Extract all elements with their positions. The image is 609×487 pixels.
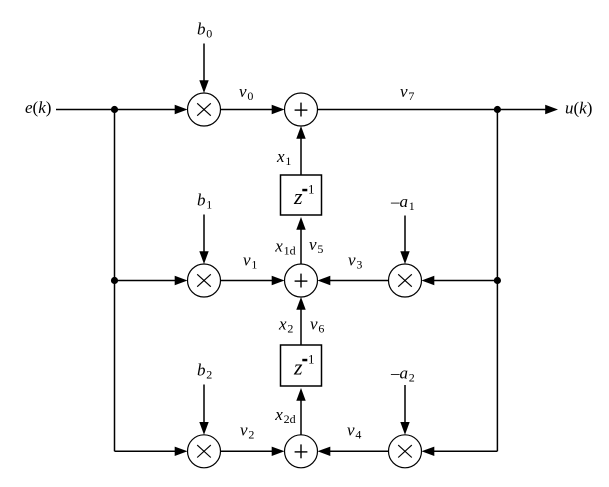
svg-text:1: 1 (308, 181, 315, 196)
wire: M3 to summer S3 (221, 447, 285, 456)
wire: S3 output up into Z2 (296, 388, 305, 435)
multiplier M5 (-a2 gain) (389, 435, 422, 468)
multiplier M3 (b2 gain) (188, 435, 221, 468)
wire: M1 to summer S1 (221, 105, 285, 114)
delay block Z1 (z^-1) (281, 175, 322, 215)
wire: M4 to S2 (318, 276, 389, 285)
wire: -a2 drop into M5 (400, 385, 409, 435)
wire: right branch into M4 (422, 276, 498, 285)
wire: Z1 output up into S1 (296, 126, 305, 175)
multiplier M1 (b0 gain) (188, 93, 221, 126)
summer S3 (285, 435, 318, 468)
svg-text:e(k): e(k) (25, 98, 51, 117)
wire: b0 drop into M1 (199, 44, 208, 94)
wire: S1 output to right junction (318, 109, 498, 111)
delay block Z2 (z^-1) (281, 345, 322, 386)
wire: left branch to multiplier M2 (115, 276, 188, 285)
summer S2 (285, 264, 318, 297)
wire: left branch to multiplier M3 (115, 447, 188, 456)
wire: junction to output u(k) (497, 105, 558, 114)
wire: S2 output up into Z1 (296, 217, 305, 264)
wire: M2 to summer S2 (221, 276, 285, 285)
wire: Z2 output up into S2 (296, 297, 305, 345)
multiplier M2 (b1 gain) (188, 264, 221, 297)
node: input branch junction top-left (111, 106, 118, 113)
multiplier M4 (-a1 gain) (389, 264, 422, 297)
wire: b2 drop into M3 (199, 385, 208, 435)
svg-text:u(k): u(k) (565, 99, 592, 118)
wire: b1 drop into M2 (199, 215, 208, 265)
svg-text:z: z (293, 184, 303, 209)
wire: M5 to S3 (318, 447, 389, 456)
wire: right vertical feedback branch (496, 110, 498, 452)
svg-text:z: z (293, 355, 303, 380)
wire: input e(k) to multiplier M1 (56, 105, 188, 114)
wire: right branch into M5 (422, 447, 498, 456)
wire: -a1 drop into M4 (400, 216, 409, 265)
node: output junction top-right (494, 106, 501, 113)
wire: left vertical branch (114, 110, 116, 452)
summer S1 (285, 93, 318, 126)
node: right branch junction row 2 (494, 277, 501, 284)
svg-text:1: 1 (308, 351, 315, 366)
node: left branch junction row 2 (111, 277, 118, 284)
